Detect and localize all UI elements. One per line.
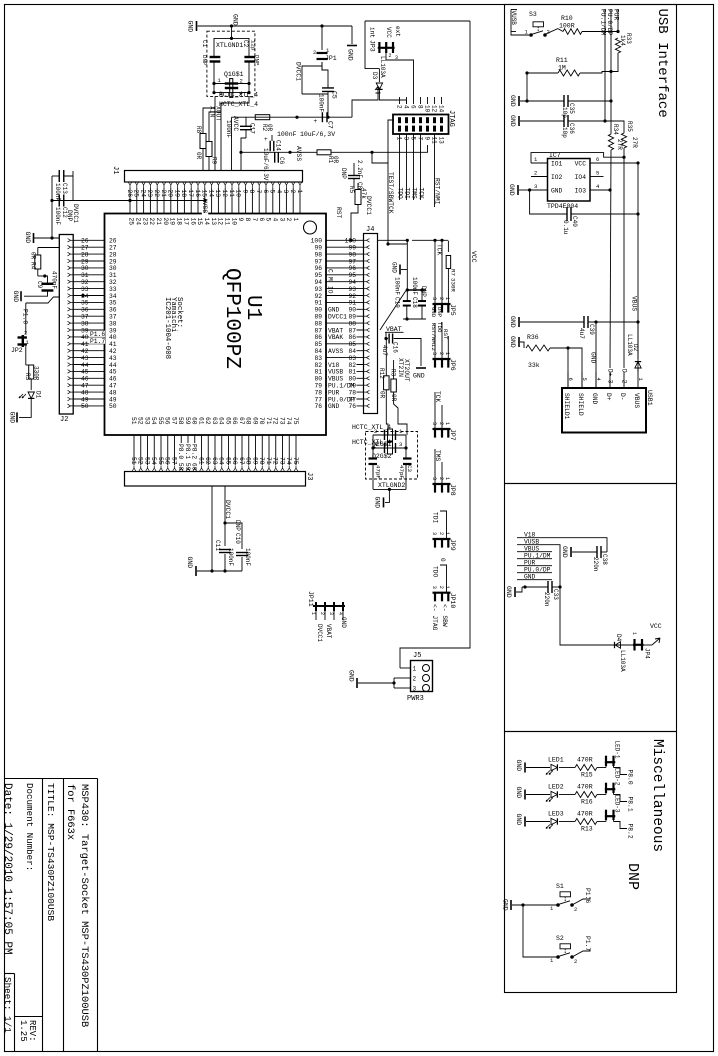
ground XTLGND2 — [385, 489, 389, 502]
svg-text:DVCC1: DVCC1 — [295, 62, 302, 81]
svg-text:55: 55 — [157, 457, 164, 465]
svg-text:0R: 0R — [195, 152, 202, 160]
svg-text:68: 68 — [245, 457, 252, 465]
svg-text:GND: GND — [551, 188, 563, 195]
svg-text:AVSS: AVSS — [295, 146, 302, 161]
svg-text:0.1u: 0.1u — [562, 220, 569, 235]
wire RST/NMI from JTAG — [434, 134, 436, 207]
svg-text:64: 64 — [218, 417, 225, 425]
section box middle — [505, 484, 677, 732]
svg-text:65: 65 — [224, 417, 231, 425]
svg-text:3: 3 — [431, 297, 437, 300]
svg-text:330R: 330R — [450, 278, 457, 292]
svg-text:14: 14 — [207, 190, 214, 198]
net flag VUSB at S3 — [510, 10, 512, 32]
svg-text:PWR3: PWR3 — [407, 695, 424, 703]
svg-text:53: 53 — [143, 417, 150, 425]
net label P1.6 pin40 — [89, 331, 105, 337]
section box Miscellaneous — [505, 732, 677, 993]
svg-text:75: 75 — [292, 417, 299, 425]
shield box XTLGND2 dashed — [366, 432, 418, 480]
svg-text:1k4: 1k4 — [619, 35, 626, 46]
shield box XTLGND1 dashed — [207, 31, 255, 96]
svg-text:73: 73 — [278, 417, 285, 425]
svg-text:66: 66 — [231, 417, 238, 425]
wire DVCC1 vertical — [51, 176, 53, 201]
svg-text:470R: 470R — [577, 811, 593, 818]
svg-text:1.25: 1.25 — [18, 1020, 28, 1042]
svg-text:61: 61 — [197, 417, 204, 425]
svg-text:IO1: IO1 — [551, 161, 563, 168]
svg-text:52: 52 — [137, 457, 144, 465]
capacitor C10 100nF DNP — [225, 523, 242, 549]
svg-text:470nF: 470nF — [51, 271, 58, 289]
svg-text:D-: D- — [619, 393, 626, 401]
svg-text:C5: C5 — [330, 91, 337, 99]
svg-text:DNP: DNP — [436, 307, 443, 318]
svg-text:12: 12 — [430, 105, 437, 113]
svg-text:D+: D+ — [605, 393, 612, 401]
svg-text:71: 71 — [265, 457, 272, 465]
svg-text:2.2nF: 2.2nF — [356, 160, 363, 178]
svg-text:27R: 27R — [631, 137, 638, 148]
svg-text:S2: S2 — [556, 935, 564, 942]
svg-text:3: 3 — [431, 477, 437, 480]
svg-text:70: 70 — [258, 417, 265, 425]
resistor R12 0R — [384, 376, 390, 390]
ground C38 — [570, 547, 572, 557]
jumper JP1 — [317, 52, 328, 54]
svg-text:23: 23 — [146, 190, 153, 198]
capacitor C7 + 10uF — [321, 112, 323, 122]
svg-text:XTLGND1: XTLGND1 — [216, 42, 243, 49]
svg-text:86: 86 — [348, 334, 356, 341]
svg-text:int: int — [369, 27, 376, 38]
svg-text:GND: GND — [591, 393, 598, 405]
svg-text:3: 3 — [431, 586, 437, 589]
header J1 pins — [128, 182, 130, 185]
svg-text:P1.7: P1.7 — [584, 936, 591, 951]
svg-text:0: 0 — [439, 558, 446, 562]
svg-text:D+ 3: D+ 3 — [606, 369, 613, 384]
jumper JP10 — [433, 592, 451, 594]
header J4 pin numbers 100-76 — [344, 237, 358, 243]
svg-text:2: 2 — [395, 105, 402, 109]
svg-text:R12: R12 — [378, 368, 385, 379]
svg-text:P8.1: P8.1 — [627, 797, 634, 812]
svg-text:25: 25 — [128, 218, 135, 226]
wire DVCC1 branch — [302, 62, 322, 94]
wire diagonal to VBAT area — [380, 291, 406, 331]
crystal Q2G$2 — [373, 447, 406, 449]
wire AVCC rail down to J1 — [231, 117, 233, 170]
svg-text:17: 17 — [187, 190, 194, 198]
svg-text:DNP: DNP — [201, 55, 208, 66]
svg-text:VBUS: VBUS — [631, 296, 638, 311]
svg-text:11: 11 — [228, 190, 235, 198]
net label P8.2 pin60 — [192, 443, 198, 468]
svg-text:R9: R9 — [211, 157, 218, 165]
capacitor C39 4u7 — [583, 316, 585, 328]
svg-text:1: 1 — [631, 632, 637, 635]
svg-text:GND: GND — [347, 49, 354, 61]
svg-text:50: 50 — [109, 403, 117, 410]
svg-text:100nF: 100nF — [411, 277, 418, 295]
svg-text:7: 7 — [416, 137, 423, 141]
svg-text:C38: C38 — [601, 554, 608, 565]
svg-text:2: 2 — [389, 53, 392, 59]
svg-text:0R: 0R — [390, 394, 397, 402]
svg-text:12p: 12p — [250, 40, 257, 51]
svg-text:R35: R35 — [626, 121, 633, 132]
svg-text:LL103A: LL103A — [619, 650, 626, 672]
svg-text:JP1: JP1 — [325, 55, 337, 62]
svg-text:72: 72 — [272, 417, 279, 425]
svg-text:50: 50 — [81, 403, 89, 410]
svg-text:60: 60 — [191, 417, 198, 425]
svg-text:GND: GND — [24, 232, 31, 244]
led D1 — [28, 392, 34, 398]
svg-text:67: 67 — [238, 417, 245, 425]
wire JP3 pin2 to JTAG — [386, 51, 414, 97]
svg-text:AVSS: AVSS — [328, 348, 343, 355]
jumper JP9 — [433, 538, 451, 540]
svg-text:LED-3: LED-3 — [614, 795, 621, 813]
svg-text:75: 75 — [292, 457, 299, 465]
svg-text:GND: GND — [515, 760, 522, 772]
svg-text:GND: GND — [430, 307, 437, 318]
svg-text:C19: C19 — [394, 297, 401, 308]
resistor R3 330R below JP2 — [29, 365, 34, 379]
svg-text:GND: GND — [187, 21, 194, 33]
svg-text:GND: GND — [9, 412, 16, 424]
svg-text:GND: GND — [508, 184, 515, 196]
svg-text:3: 3 — [328, 612, 334, 615]
svg-text:C33: C33 — [552, 589, 559, 600]
svg-text:GND: GND — [505, 586, 512, 598]
ground below J3 — [197, 570, 242, 572]
svg-text:J3: J3 — [305, 472, 313, 480]
svg-text:D4: D4 — [615, 634, 622, 642]
jumper JP7 — [433, 428, 451, 430]
wire V18 to C38 — [552, 538, 607, 552]
svg-text:GND: GND — [391, 262, 398, 273]
jumper LED-1 — [605, 756, 607, 766]
svg-text:26: 26 — [126, 190, 133, 198]
svg-text:GND: GND — [12, 291, 19, 303]
wire R4 top to pin27 row — [38, 247, 60, 249]
svg-text:D3: D3 — [371, 72, 378, 80]
svg-text:R11: R11 — [556, 57, 568, 64]
svg-text:S1: S1 — [556, 883, 564, 890]
svg-text:74: 74 — [285, 417, 292, 425]
svg-text:54: 54 — [150, 417, 157, 425]
capacitor C3 47pF — [403, 457, 412, 459]
svg-text:100R: 100R — [559, 23, 575, 30]
wire USB GND pin to C39 net — [595, 322, 597, 388]
svg-text:VCC: VCC — [575, 161, 587, 168]
ground C35 — [518, 96, 520, 106]
svg-text:DVCC1: DVCC1 — [316, 624, 323, 642]
capacitor C18 100nF DNP — [418, 300, 426, 302]
JTAG bottom pin numbers — [396, 136, 402, 146]
connector J5 PWR3 — [411, 661, 433, 692]
svg-text:IO2: IO2 — [551, 174, 563, 181]
resistor R4 0R — [35, 255, 41, 269]
wire gnd to caps — [401, 269, 407, 271]
svg-text:18: 18 — [180, 190, 187, 198]
svg-text:56: 56 — [164, 417, 171, 425]
wires J1 to U1 top pins — [129, 188, 131, 213]
svg-text:M: M — [327, 277, 334, 281]
svg-text:2: 2 — [438, 422, 444, 425]
svg-text:JP9: JP9 — [449, 539, 456, 551]
wire S1 to S2 — [523, 905, 558, 957]
svg-text:72: 72 — [272, 457, 279, 465]
resistor R35 27R — [621, 133, 626, 148]
svg-text:GND: GND — [509, 316, 516, 328]
wires U1 right pins to J4 — [326, 239, 364, 241]
svg-text:470R: 470R — [577, 784, 593, 791]
svg-text:69: 69 — [251, 417, 258, 425]
svg-text:10: 10 — [423, 105, 430, 113]
jumper JP2 — [18, 336, 27, 338]
jumper JP6 — [433, 358, 451, 360]
svg-text:GND: GND — [509, 95, 516, 107]
svg-text:2: 2 — [24, 330, 27, 337]
capacitor C16 4u7 — [385, 332, 387, 338]
svg-text:Document Number:: Document Number: — [24, 783, 35, 871]
svg-text:LED3: LED3 — [548, 811, 564, 818]
svg-text:10p: 10p — [561, 127, 568, 138]
header J3 outline — [125, 472, 306, 487]
svg-text:PU.0/DP: PU.0/DP — [606, 9, 613, 36]
svg-text:TDO: TDO — [396, 188, 403, 200]
svg-text:0R: 0R — [379, 391, 386, 399]
capacitor C40 0.1u — [530, 190, 567, 214]
label XTLGND2 — [373, 488, 406, 490]
svg-text:LED-1: LED-1 — [614, 741, 621, 759]
svg-text:2: 2 — [289, 190, 296, 194]
svg-text:5: 5 — [409, 137, 416, 141]
svg-text:C6: C6 — [278, 157, 285, 165]
header J1 outline — [125, 171, 303, 183]
svg-text:GND: GND — [374, 497, 381, 509]
svg-text:2: 2 — [438, 477, 444, 480]
svg-text:Date: 1/29/2010 1:57:05 PM: Date: 1/29/2010 1:57:05 PM — [1, 783, 13, 955]
svg-text:71: 71 — [265, 417, 272, 425]
svg-text:4u7: 4u7 — [578, 328, 585, 339]
svg-text:C17: C17 — [249, 123, 256, 134]
svg-text:69: 69 — [251, 457, 258, 465]
svg-text:2: 2 — [374, 428, 377, 435]
svg-text:TDI: TDI — [432, 512, 439, 524]
wire DVCC1 down to gnd wire — [51, 201, 53, 239]
svg-text:RST: RST — [442, 329, 449, 340]
svg-text:22: 22 — [153, 190, 160, 198]
svg-text:63: 63 — [211, 457, 218, 465]
svg-text:S3: S3 — [529, 11, 537, 18]
svg-text:MSP430: Target-Socket MSP-TS43: MSP430: Target-Socket MSP-TS430PZ100USB — [78, 784, 90, 1027]
svg-text:3: 3 — [413, 686, 417, 693]
svg-text:13: 13 — [437, 137, 444, 145]
svg-text:3: 3 — [431, 352, 437, 355]
svg-text:53: 53 — [143, 457, 150, 465]
svg-text:1: 1 — [395, 137, 402, 141]
ic IC7 TPD4E004 — [548, 159, 591, 202]
svg-text:10: 10 — [235, 190, 242, 198]
svg-text:57: 57 — [170, 417, 177, 425]
svg-text:JP5: JP5 — [449, 304, 456, 316]
svg-text:47pF: 47pF — [375, 465, 382, 479]
svg-text:TPD4E004: TPD4E004 — [547, 203, 578, 210]
wires caps to crystal — [213, 62, 215, 93]
svg-text:+: + — [314, 118, 318, 125]
svg-text:C14: C14 — [275, 140, 282, 151]
svg-text:GND: GND — [232, 14, 239, 26]
svg-text:62: 62 — [204, 417, 211, 425]
svg-text:Miscellaneous: Miscellaneous — [649, 739, 665, 852]
svg-text:1: 1 — [444, 422, 450, 425]
svg-text:67: 67 — [238, 457, 245, 465]
resistor R5 47k pullup — [355, 190, 361, 205]
svg-text:USB Interface: USB Interface — [654, 9, 670, 118]
svg-text:LED2: LED2 — [548, 784, 564, 791]
svg-text:C: C — [327, 269, 334, 273]
ground IC7 — [517, 185, 519, 195]
header J2 pin numbers 26-50 — [80, 237, 90, 243]
svg-text:3: 3 — [534, 183, 537, 190]
svg-text:100nF: 100nF — [318, 94, 325, 112]
svg-text:100nF: 100nF — [244, 548, 251, 566]
svg-text:LED-2: LED-2 — [614, 768, 621, 786]
svg-text:2: 2 — [313, 49, 316, 56]
svg-text:DNP: DNP — [624, 863, 641, 890]
jumper JP5 — [434, 240, 436, 304]
ground below D1 — [19, 399, 31, 417]
wire VUSB down — [552, 545, 634, 645]
svg-text:C7: C7 — [327, 121, 334, 129]
wire IO1 loop to D- line — [531, 153, 624, 163]
svg-text:DNP: DNP — [253, 55, 260, 66]
svg-text:P8.2: P8.2 — [627, 824, 634, 839]
svg-text:9: 9 — [423, 137, 430, 141]
resistor R34 27R — [608, 134, 613, 150]
svg-text:14: 14 — [437, 105, 444, 113]
svg-text:GND: GND — [502, 899, 509, 911]
svg-text:58: 58 — [177, 417, 184, 425]
header J4 pins — [367, 239, 370, 241]
svg-text:GND: GND — [509, 336, 516, 348]
svg-text:84: 84 — [348, 348, 356, 355]
wire IO3 pin4 to D+ line — [590, 189, 610, 191]
svg-text:19: 19 — [173, 190, 180, 198]
svg-text:R10: R10 — [561, 15, 573, 22]
svg-text:R8: R8 — [195, 126, 202, 134]
resistor R33 1k4 — [615, 38, 620, 53]
svg-text:C39: C39 — [588, 324, 595, 335]
svg-text:J1: J1 — [111, 166, 119, 174]
wire top rail — [198, 25, 353, 27]
svg-text:JP7: JP7 — [449, 429, 456, 441]
jumper LED-3 — [605, 810, 607, 820]
svg-text:470R: 470R — [577, 757, 593, 764]
svg-text:GND: GND — [413, 373, 425, 380]
svg-text:GND: GND — [328, 403, 340, 410]
resistor R1 0R — [317, 150, 331, 155]
svg-text:1: 1 — [444, 477, 450, 480]
section box USB Interface — [505, 5, 677, 484]
svg-text:2: 2 — [438, 532, 444, 535]
svg-text:62: 62 — [204, 457, 211, 465]
svg-text:3: 3 — [402, 137, 409, 141]
svg-text:J4: J4 — [366, 226, 374, 234]
ground top of J2 — [33, 233, 35, 243]
svg-text:LL103A: LL103A — [379, 56, 386, 78]
svg-text:DVCC1: DVCC1 — [365, 196, 372, 215]
svg-text:C1: C1 — [201, 40, 208, 48]
svg-text:6: 6 — [262, 190, 269, 194]
svg-text:GND: GND — [515, 787, 522, 799]
svg-text:11: 11 — [430, 137, 437, 145]
svg-text:4: 4 — [275, 190, 282, 194]
svg-text:76: 76 — [348, 403, 356, 410]
svg-text:1: 1 — [310, 612, 316, 615]
header J3 pin numbers 51-75 — [131, 456, 137, 466]
wire C16 to GND mid — [394, 339, 421, 367]
svg-text:P8.1 59: P8.1 59 — [184, 444, 191, 471]
svg-text:9: 9 — [241, 190, 248, 194]
svg-text:P8.0: P8.0 — [627, 770, 634, 785]
svg-text:3: 3 — [431, 422, 437, 425]
svg-text:ext: ext — [394, 26, 401, 37]
ground C39 — [518, 317, 520, 327]
svg-text:IO4: IO4 — [575, 174, 587, 181]
svg-text:2: 2 — [413, 676, 417, 683]
svg-text:4u7: 4u7 — [381, 345, 388, 356]
svg-text:TMS: TMS — [410, 188, 417, 200]
jumper JP8 — [433, 483, 451, 485]
svg-text:C16: C16 — [392, 342, 399, 353]
svg-text:C35: C35 — [568, 103, 575, 114]
jumper LED-2 — [605, 783, 607, 793]
svg-text:<- JTAG: <- JTAG — [431, 604, 438, 631]
svg-text:RST/NMI2: RST/NMI2 — [430, 323, 437, 351]
svg-text:GND: GND — [340, 617, 347, 628]
svg-text:C2: C2 — [242, 40, 249, 48]
svg-text:R4: R4 — [30, 262, 37, 270]
capacitor C1 12pF DNP — [210, 56, 221, 58]
svg-text:1: 1 — [444, 297, 450, 300]
svg-text:XT2IN: XT2IN — [397, 358, 404, 377]
svg-text:D1: D1 — [35, 391, 42, 399]
svg-text:89: 89 — [348, 314, 356, 321]
svg-text:P1.0: P1.0 — [22, 309, 29, 324]
svg-text:65: 65 — [224, 457, 231, 465]
resistor R2 0R — [255, 115, 270, 120]
svg-text:20: 20 — [167, 190, 174, 198]
svg-text:1: 1 — [444, 352, 450, 355]
ground R36 — [518, 337, 520, 347]
led LED3 row — [524, 817, 526, 827]
svg-text:24: 24 — [139, 190, 146, 198]
svg-text:6: 6 — [409, 105, 416, 109]
svg-text:2: 2 — [438, 352, 444, 355]
wire VCC rail right side — [400, 21, 470, 668]
net label P8.0 pin58 — [178, 443, 184, 468]
svg-text:68: 68 — [245, 417, 252, 425]
svg-text:for F663x: for F663x — [64, 784, 76, 840]
